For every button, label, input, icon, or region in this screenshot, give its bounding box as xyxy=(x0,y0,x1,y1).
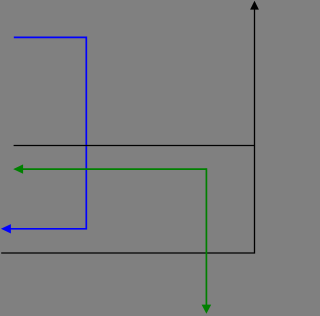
axis (black L: baseline + vertical axis with up arrow) xyxy=(1,9,254,253)
middle horizontal line xyxy=(14,145,255,147)
green arrowhead (left) xyxy=(13,164,23,173)
blue step path xyxy=(11,37,87,228)
axis arrowhead (up) xyxy=(250,1,259,10)
blue arrowhead (left) xyxy=(1,224,11,233)
green arrowhead (down) xyxy=(202,305,212,314)
green horizontal segment xyxy=(23,168,207,170)
green vertical segment xyxy=(205,168,207,305)
